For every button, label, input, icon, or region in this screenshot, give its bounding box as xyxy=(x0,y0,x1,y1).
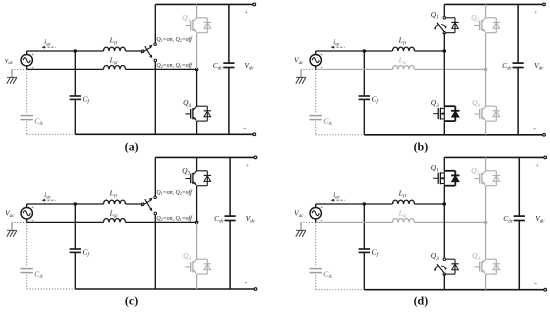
wire: Q2 to gray midpoint xyxy=(485,186,487,223)
DC+ output terminal xyxy=(543,3,546,6)
capacitor Clk (parasitic, gray) xyxy=(310,269,333,281)
wire: Q3 emitter to midpoint node xyxy=(196,186,198,223)
transistor Q3 (on) MOSFET with bold conducting body diode xyxy=(431,98,460,121)
svg-text:+: + xyxy=(320,52,323,58)
switch blade with toggle arrows xyxy=(141,45,153,59)
switch lower throw contact xyxy=(154,59,157,62)
earth ground symbol xyxy=(296,77,306,83)
wire: Cf vertical branch xyxy=(363,204,365,249)
wire: Lf1 to switch pole xyxy=(126,203,142,205)
wire: dotted branch to Clk xyxy=(26,69,28,114)
wire: top rail to Q2 (inactive) xyxy=(485,157,487,170)
wire: DC+ top rail xyxy=(444,156,545,158)
wire: dotted Clk to bottom rail xyxy=(26,275,28,289)
node: Cf tap on top wire xyxy=(74,49,78,53)
transistor Q4 (gray) IGBT with antiparallel diode xyxy=(183,251,211,274)
wire: Q3 to bottom rail xyxy=(443,121,445,135)
transistor Q4 (active) IGBT with antiparallel diode xyxy=(183,98,211,121)
svg-text:+: + xyxy=(535,163,539,170)
wire: dotted Clk to bottom rail xyxy=(315,122,317,135)
wire: AC - terminal to Lf2 xyxy=(27,221,104,223)
switch pole contact xyxy=(141,203,144,206)
transistor Q1 (switching) drawn as toggling switch with antiparallel diode xyxy=(431,10,459,34)
earth ground symbol xyxy=(296,230,306,236)
inductor Lf1 xyxy=(104,188,126,204)
capacitor Cf xyxy=(359,248,379,259)
wire: top rail to switch upper contact xyxy=(154,4,156,43)
inductor Lf2 xyxy=(393,209,415,223)
wire: dotted branch to Clk xyxy=(315,69,317,114)
svg-text:(b): (b) xyxy=(414,139,429,153)
svg-text:-: - xyxy=(32,218,34,225)
transistor Q2 (gray) IGBT with antiparallel diode xyxy=(471,13,500,33)
capacitor Clk (parasitic, gray) xyxy=(21,116,44,128)
svg-text:+: + xyxy=(534,10,538,17)
svg-text:Q1=on, Q2=off: Q1=on, Q2=off xyxy=(156,189,193,196)
wire: dotted neutral to earth ground xyxy=(301,68,316,70)
wire: top rail to Q3 collector xyxy=(196,157,198,170)
iac current label and dashed arrow xyxy=(330,38,344,49)
iac current label and dashed arrow xyxy=(330,191,344,202)
wire: dotted Clk to bottom rail xyxy=(26,122,28,135)
switch lower throw contact xyxy=(154,212,157,215)
wire: Lf1 to left leg midpoint xyxy=(415,50,445,52)
wire: Q4 emitter to bottom rail xyxy=(196,121,198,134)
svg-text:-: - xyxy=(321,218,323,225)
capacitor Cdc xyxy=(213,4,235,134)
transistor Q3 (switching) drawn as toggling switch with antiparallel diode xyxy=(431,251,459,275)
wire: DC- bottom rail xyxy=(364,134,544,136)
inductor Lf1 xyxy=(393,35,415,51)
wire: gray midpoint to Q4 xyxy=(485,69,487,106)
wire: Q4 to bottom rail xyxy=(485,121,487,135)
transistor Q4 (gray) IGBT with antiparallel diode xyxy=(472,251,500,274)
switch upper throw contact xyxy=(154,43,157,46)
wire: dotted Clk to bottom rail xyxy=(315,275,317,290)
svg-text:-: - xyxy=(243,123,246,132)
inductor Lf2 xyxy=(393,56,415,70)
wire: dotted neutral to earth ground xyxy=(12,221,27,223)
node: Cf tap on top wire xyxy=(363,202,367,206)
wire: switch lower contact to bottom rail xyxy=(154,62,156,135)
transistor Q1 (on) MOSFET with bold conducting body diode xyxy=(431,163,460,186)
AC source Vac xyxy=(5,51,34,72)
wire: midpoint node to Q4 collector xyxy=(196,222,198,259)
wire: Lf1 to left leg midpoint xyxy=(415,203,445,205)
wire: AC + terminal to Lf1 xyxy=(316,203,393,205)
svg-text:-: - xyxy=(533,124,536,133)
transistor Q3 (active) IGBT with antiparallel diode xyxy=(182,166,211,186)
wire: midpoint to Q3 xyxy=(443,51,445,106)
wire: AC - terminal to Lf2 xyxy=(316,68,393,70)
wire: Lf2 to right leg midpoint xyxy=(126,68,197,70)
wire: Q3 to bottom rail xyxy=(443,274,445,290)
svg-text:-: - xyxy=(534,279,537,288)
node: Lf1 junction on left leg xyxy=(443,49,447,53)
wire: Q1 to midpoint xyxy=(443,33,445,51)
wire: AC - terminal to Lf2 xyxy=(27,68,104,70)
wire: dotted neutral to earth ground xyxy=(301,221,316,223)
svg-text:-: - xyxy=(321,65,323,72)
wire: DC- bottom rail xyxy=(364,289,545,291)
switch blade with toggle arrows xyxy=(141,198,153,212)
iac current label and dashed arrow xyxy=(41,191,55,202)
wire: Lf1 to switch pole xyxy=(126,50,142,52)
inductor Lf2 xyxy=(104,56,126,70)
inductor Lf1 xyxy=(104,35,126,51)
wire: midpoint to Q3 xyxy=(443,204,445,259)
wire: DC- bottom rail xyxy=(75,288,255,290)
wire: dotted neutral to earth ground xyxy=(12,68,27,70)
DC- output terminal xyxy=(543,133,546,136)
svg-text:Q2=on, Q1=off: Q2=on, Q1=off xyxy=(156,62,193,69)
wire: Cf vertical branch xyxy=(74,51,76,96)
capacitor Cdc xyxy=(214,157,236,289)
iac current label and dashed arrow xyxy=(41,38,55,49)
wire: AC + terminal to Lf1 xyxy=(27,203,104,205)
DC+ output terminal xyxy=(254,156,257,159)
wire: top rail to Q3 collector xyxy=(196,4,198,17)
wire: top rail to Q2 (inactive) xyxy=(485,4,487,17)
DC+ output terminal xyxy=(544,156,547,159)
svg-text:+: + xyxy=(31,52,34,58)
wire: Q4 emitter to bottom rail xyxy=(196,274,198,289)
wire: Lf2 to right leg midpoint xyxy=(415,68,486,70)
DC+ output terminal xyxy=(253,3,256,6)
node: Cf tap on top wire xyxy=(74,202,78,206)
wire: Lf2 to right leg midpoint xyxy=(415,221,486,223)
svg-text:Q1=on, Q2=off: Q1=on, Q2=off xyxy=(156,36,193,43)
AC source Vac xyxy=(5,204,34,225)
capacitor Cf xyxy=(70,248,90,259)
transistor Q3 (gray) IGBT with antiparallel diode xyxy=(182,13,211,33)
DC- output terminal xyxy=(253,133,256,136)
node: Lf2 junction on right leg xyxy=(195,221,199,225)
DC- output terminal xyxy=(254,288,257,291)
capacitor Cdc xyxy=(502,4,524,134)
wire: Q2 to gray midpoint xyxy=(485,33,487,70)
wire: dotted branch to Clk xyxy=(315,222,317,267)
wire: DC+ top rail xyxy=(155,3,254,5)
node: Lf2 junction on right leg xyxy=(484,221,488,225)
wire: midpoint node to Q4 collector xyxy=(196,69,198,106)
svg-text:+: + xyxy=(320,205,323,211)
AC source Vac xyxy=(294,51,323,72)
wire: Cf vertical branch xyxy=(363,51,365,96)
wire: switch lower contact to bottom rail xyxy=(154,215,156,289)
svg-text:(a): (a) xyxy=(125,139,139,153)
svg-text:+: + xyxy=(246,163,250,170)
capacitor Cf xyxy=(70,95,90,106)
capacitor Clk (parasitic, gray) xyxy=(310,116,333,128)
wire: AC + terminal to Lf1 xyxy=(316,50,393,52)
earth ground symbol xyxy=(7,230,17,236)
wire: Q3 emitter to midpoint node xyxy=(196,33,198,70)
wire: gray midpoint to Q4 xyxy=(485,222,487,259)
wire: AC - terminal to Lf2 xyxy=(316,221,393,223)
svg-text:-: - xyxy=(32,65,34,72)
svg-text:-: - xyxy=(245,278,248,287)
earth ground symbol xyxy=(7,77,17,83)
capacitor Cdc xyxy=(503,157,525,289)
wire: Cf vertical branch xyxy=(74,204,76,249)
svg-text:(c): (c) xyxy=(125,293,138,307)
svg-text:(d): (d) xyxy=(414,293,429,307)
wire: DC- bottom rail xyxy=(75,133,254,135)
switch upper throw contact xyxy=(154,196,157,199)
node: Lf1 junction on left leg xyxy=(443,202,447,206)
wire: Lf2 to right leg midpoint xyxy=(126,221,197,223)
capacitor Clk (parasitic, gray) xyxy=(21,269,44,281)
wire: AC + terminal to Lf1 xyxy=(27,50,104,52)
svg-text:+: + xyxy=(31,205,34,211)
wire: DC+ top rail xyxy=(155,156,255,158)
svg-text:Q2=on, Q1=off: Q2=on, Q1=off xyxy=(156,215,193,222)
wire: dotted branch to Clk xyxy=(26,222,28,267)
wire: top rail to Q1 xyxy=(443,157,445,170)
wire: Q4 to bottom rail xyxy=(485,274,487,290)
capacitor Cf xyxy=(359,95,379,106)
wire: DC+ top rail xyxy=(444,3,544,5)
inductor Lf2 xyxy=(104,209,126,223)
switch pole contact xyxy=(141,50,144,53)
transistor Q2 (gray) IGBT with antiparallel diode xyxy=(471,166,500,186)
node: Lf2 junction on right leg xyxy=(484,68,488,72)
transistor Q4 (gray) IGBT with antiparallel diode xyxy=(472,98,500,121)
DC- output terminal xyxy=(544,288,547,291)
svg-text:+: + xyxy=(244,10,248,17)
inductor Lf1 xyxy=(393,188,415,204)
wire: top rail to Q1 xyxy=(443,4,445,17)
node: Cf tap on top wire xyxy=(363,49,367,53)
node: Lf2 junction on right leg xyxy=(195,68,199,72)
wire: Q1 to midpoint xyxy=(443,186,445,204)
wire: top rail to switch upper contact xyxy=(154,157,156,196)
AC source Vac xyxy=(294,204,323,225)
